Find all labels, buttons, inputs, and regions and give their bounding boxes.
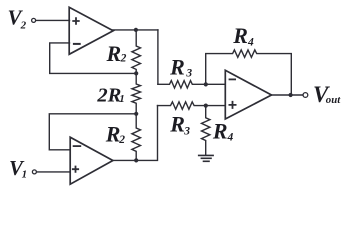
resistor R2 (bottom) [132,114,141,161]
V2 input terminal [32,18,36,22]
svg-text:2: 2 [20,20,27,32]
resistor R3 (bottom) [158,102,226,109]
resistor R3 (top) [158,81,225,88]
wire U1 output to node top [112,29,158,31]
svg-text:3: 3 [183,125,190,137]
wire V2 to U1 + input [36,19,70,21]
svg-text:2R: 2R [96,84,121,106]
wire V1 to U2 + input [37,171,71,173]
svg-text:2: 2 [120,53,127,65]
junction U2 output node [134,158,138,162]
svg-text:4: 4 [247,37,254,49]
wire U2 feedback (node B to inverting input) [49,114,136,150]
svg-text:2: 2 [118,134,125,146]
svg-text:R: R [212,119,228,144]
V1 input terminal [32,170,36,174]
junction U3 non-inverting node [204,104,208,108]
svg-text:R: R [106,41,122,66]
junction U1 output node [134,28,138,32]
resistor 2R1 [132,73,141,113]
svg-text:R: R [169,54,185,79]
op-amp U1 [69,7,113,54]
resistor R2 (top) [132,30,141,74]
wire U3 output to Vout [272,94,304,96]
svg-text:R: R [105,122,121,147]
op-amp U2 [70,137,113,184]
op-amp U3 [225,70,271,119]
wire U1 feedback (inverting input to node A) [50,43,137,74]
resistor R4 (to ground) [202,106,210,156]
svg-text:1: 1 [119,93,125,105]
node A junction [134,71,138,75]
junction U3 inverting node [204,82,208,86]
wire down to R3 top branch [157,30,159,84]
svg-text:R: R [169,112,185,137]
svg-text:R: R [232,23,248,48]
svg-text:out: out [326,94,341,106]
resistor R4 (feedback) [206,50,292,95]
svg-text:4: 4 [227,132,234,144]
svg-text:1: 1 [22,169,28,181]
node B junction [134,112,138,116]
wire U2 output to R3 bottom branch [113,106,158,161]
Vout terminal [303,93,308,98]
junction output node [289,93,293,97]
svg-text:3: 3 [185,68,192,80]
ground [199,155,213,161]
